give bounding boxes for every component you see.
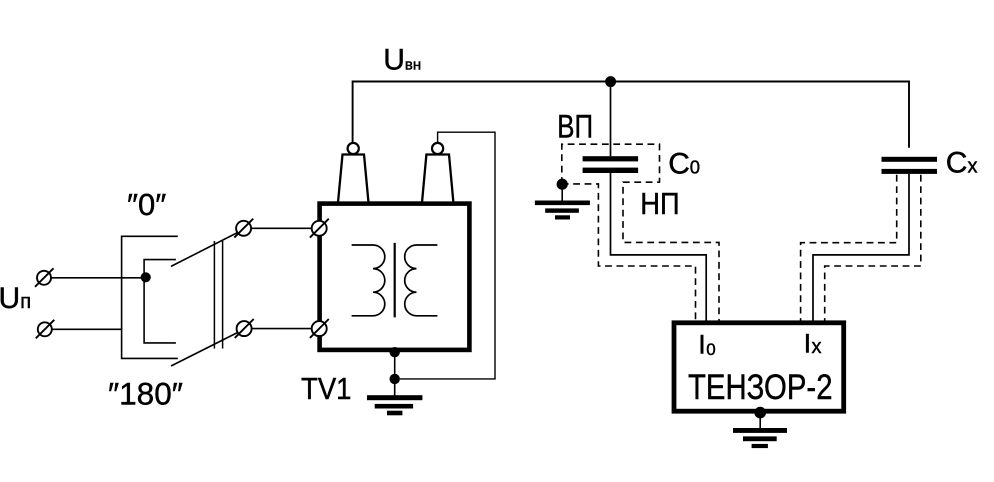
shield Cx outer dashed: [801, 175, 897, 321]
svg-text:C: C: [946, 146, 968, 179]
wire right bushing to ground net: [400, 132, 495, 379]
bushing right: [422, 143, 453, 203]
label I0: [698, 330, 715, 360]
node dot TV1 ground: [390, 374, 400, 384]
switch wiper top: [171, 233, 237, 267]
wire C0 to I0: [611, 173, 707, 321]
label C0: [668, 147, 700, 180]
transformer winding left: [352, 245, 385, 316]
svg-text:НП: НП: [640, 186, 679, 221]
wire Uвн top net: [353, 82, 909, 148]
svg-text:ВП: ВП: [557, 109, 593, 145]
svg-text:I: I: [804, 328, 812, 358]
node Uп label: [0, 282, 31, 315]
terminal input bottom: [36, 320, 55, 339]
instrument ТЕНЗОР-2 box: [674, 323, 844, 411]
transformer core: [394, 243, 396, 318]
svg-text:0: 0: [706, 340, 715, 359]
wire input top: [51, 277, 146, 279]
label Cx: [946, 146, 978, 179]
label Uвн: [383, 44, 421, 77]
svg-text:″0″: ″0″: [127, 187, 166, 222]
capacitor C0 plates: [583, 156, 639, 173]
wire Cx to Ix: [813, 174, 909, 321]
transformer TV1 box: [320, 204, 470, 350]
svg-text:U: U: [0, 282, 20, 315]
wire ТЕНЗОР ground: [759, 413, 761, 429]
switch rotor line 1: [213, 241, 215, 349]
capacitor Cx plates: [882, 157, 938, 174]
wire switch to TV1 bottom: [252, 328, 312, 330]
svg-text:TV1: TV1: [301, 371, 352, 406]
transformer winding right: [405, 245, 438, 316]
svg-text:x: x: [968, 155, 978, 177]
svg-text:U: U: [383, 44, 405, 77]
svg-text:C: C: [668, 147, 690, 180]
switch outer bracket: [122, 236, 178, 358]
svg-text:п: п: [20, 291, 31, 313]
label Ix: [804, 328, 822, 358]
ground C0: [535, 201, 590, 220]
svg-text:x: x: [812, 336, 822, 358]
terminal TV1 bottom: [310, 319, 329, 338]
wire input bottom: [52, 328, 123, 330]
terminal switch top: [234, 219, 253, 238]
terminal input top: [35, 268, 54, 287]
switch rotor line 2: [222, 241, 224, 349]
node dot ТЕНЗОР ground: [754, 407, 766, 419]
bushing left: [338, 143, 369, 203]
wire TV1 ground node down: [394, 379, 396, 396]
node dot Uвн junction: [605, 76, 616, 87]
wire C0 ground: [561, 184, 563, 201]
svg-text:0: 0: [690, 157, 700, 178]
shield НП dashed outline: [562, 184, 696, 321]
node dot switch: [141, 272, 151, 282]
terminal TV1 top: [310, 219, 329, 238]
terminal switch bottom: [235, 319, 254, 338]
switch inner bracket: [144, 260, 176, 343]
wire TV1 bottom to ground node: [394, 352, 396, 379]
ground TV1: [367, 395, 422, 415]
svg-text:″180″: ″180″: [108, 376, 183, 412]
wire switch to TV1 top: [251, 227, 312, 229]
wire Uвн drop to C0: [610, 82, 612, 157]
svg-text:ТЕНЗОР-2: ТЕНЗОР-2: [688, 368, 833, 407]
ground ТЕНЗОР: [733, 428, 787, 448]
node dot TV1 bottom: [390, 347, 400, 357]
shield Cx inner dashed: [825, 175, 921, 321]
node dot C0 ground: [557, 179, 568, 190]
shield ВП dashed outline: [562, 144, 719, 320]
svg-text:I: I: [698, 330, 706, 360]
svg-text:вн: вн: [405, 57, 421, 74]
switch wiper bottom: [171, 333, 237, 366]
